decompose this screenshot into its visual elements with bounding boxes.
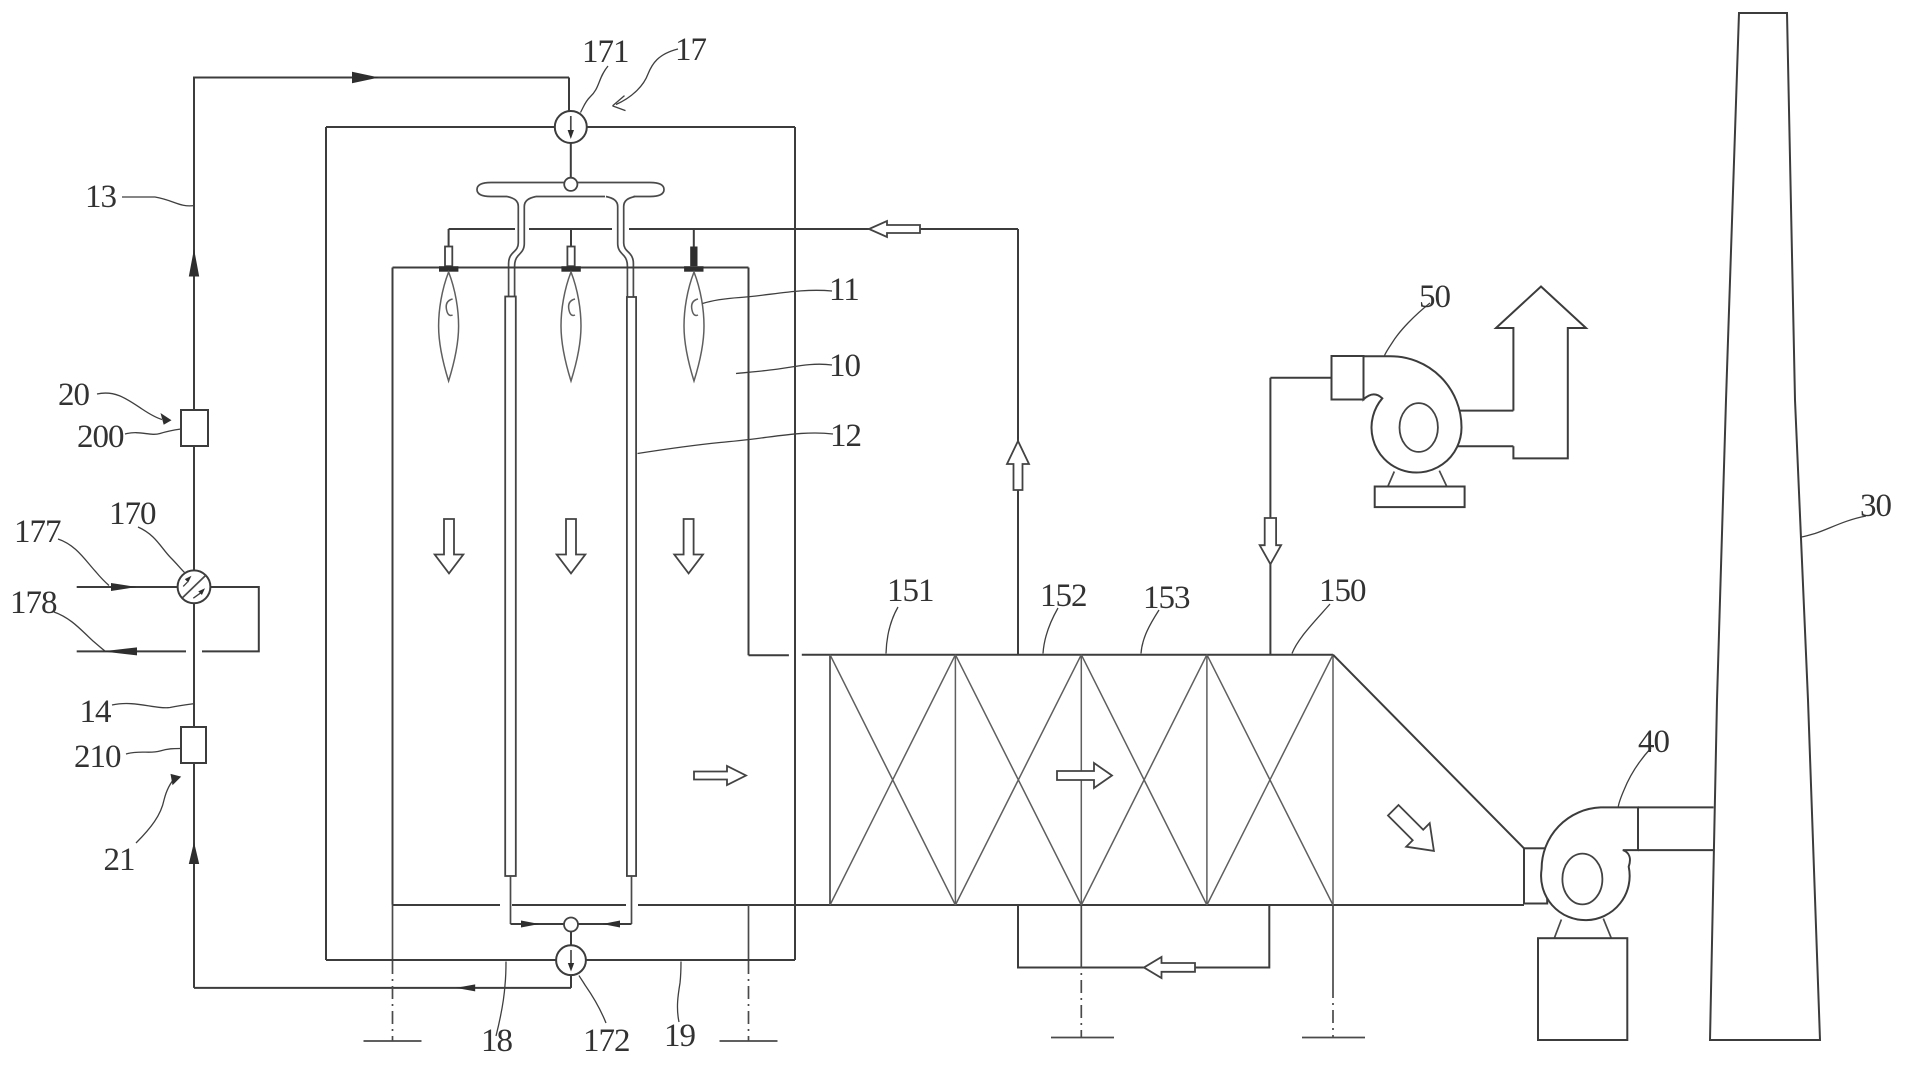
svg-text:171: 171 xyxy=(582,34,629,70)
svg-text:20: 20 xyxy=(58,377,90,413)
svg-text:50: 50 xyxy=(1419,279,1451,315)
svg-text:21: 21 xyxy=(104,842,135,878)
svg-text:152: 152 xyxy=(1040,578,1087,614)
svg-text:150: 150 xyxy=(1319,573,1366,609)
svg-text:19: 19 xyxy=(664,1018,696,1054)
svg-text:30: 30 xyxy=(1860,488,1892,524)
svg-text:200: 200 xyxy=(77,419,124,455)
svg-text:210: 210 xyxy=(74,739,121,775)
svg-text:11: 11 xyxy=(829,272,859,308)
svg-text:172: 172 xyxy=(583,1023,630,1059)
svg-text:18: 18 xyxy=(481,1023,513,1059)
svg-text:170: 170 xyxy=(109,496,156,532)
svg-text:10: 10 xyxy=(829,348,861,384)
svg-text:153: 153 xyxy=(1143,580,1190,616)
svg-text:12: 12 xyxy=(830,418,861,454)
svg-text:151: 151 xyxy=(887,573,934,609)
svg-text:40: 40 xyxy=(1638,724,1670,760)
svg-text:14: 14 xyxy=(80,694,112,730)
svg-text:177: 177 xyxy=(14,514,61,550)
svg-text:178: 178 xyxy=(10,585,57,621)
svg-text:13: 13 xyxy=(85,179,117,215)
svg-text:17: 17 xyxy=(675,32,707,68)
